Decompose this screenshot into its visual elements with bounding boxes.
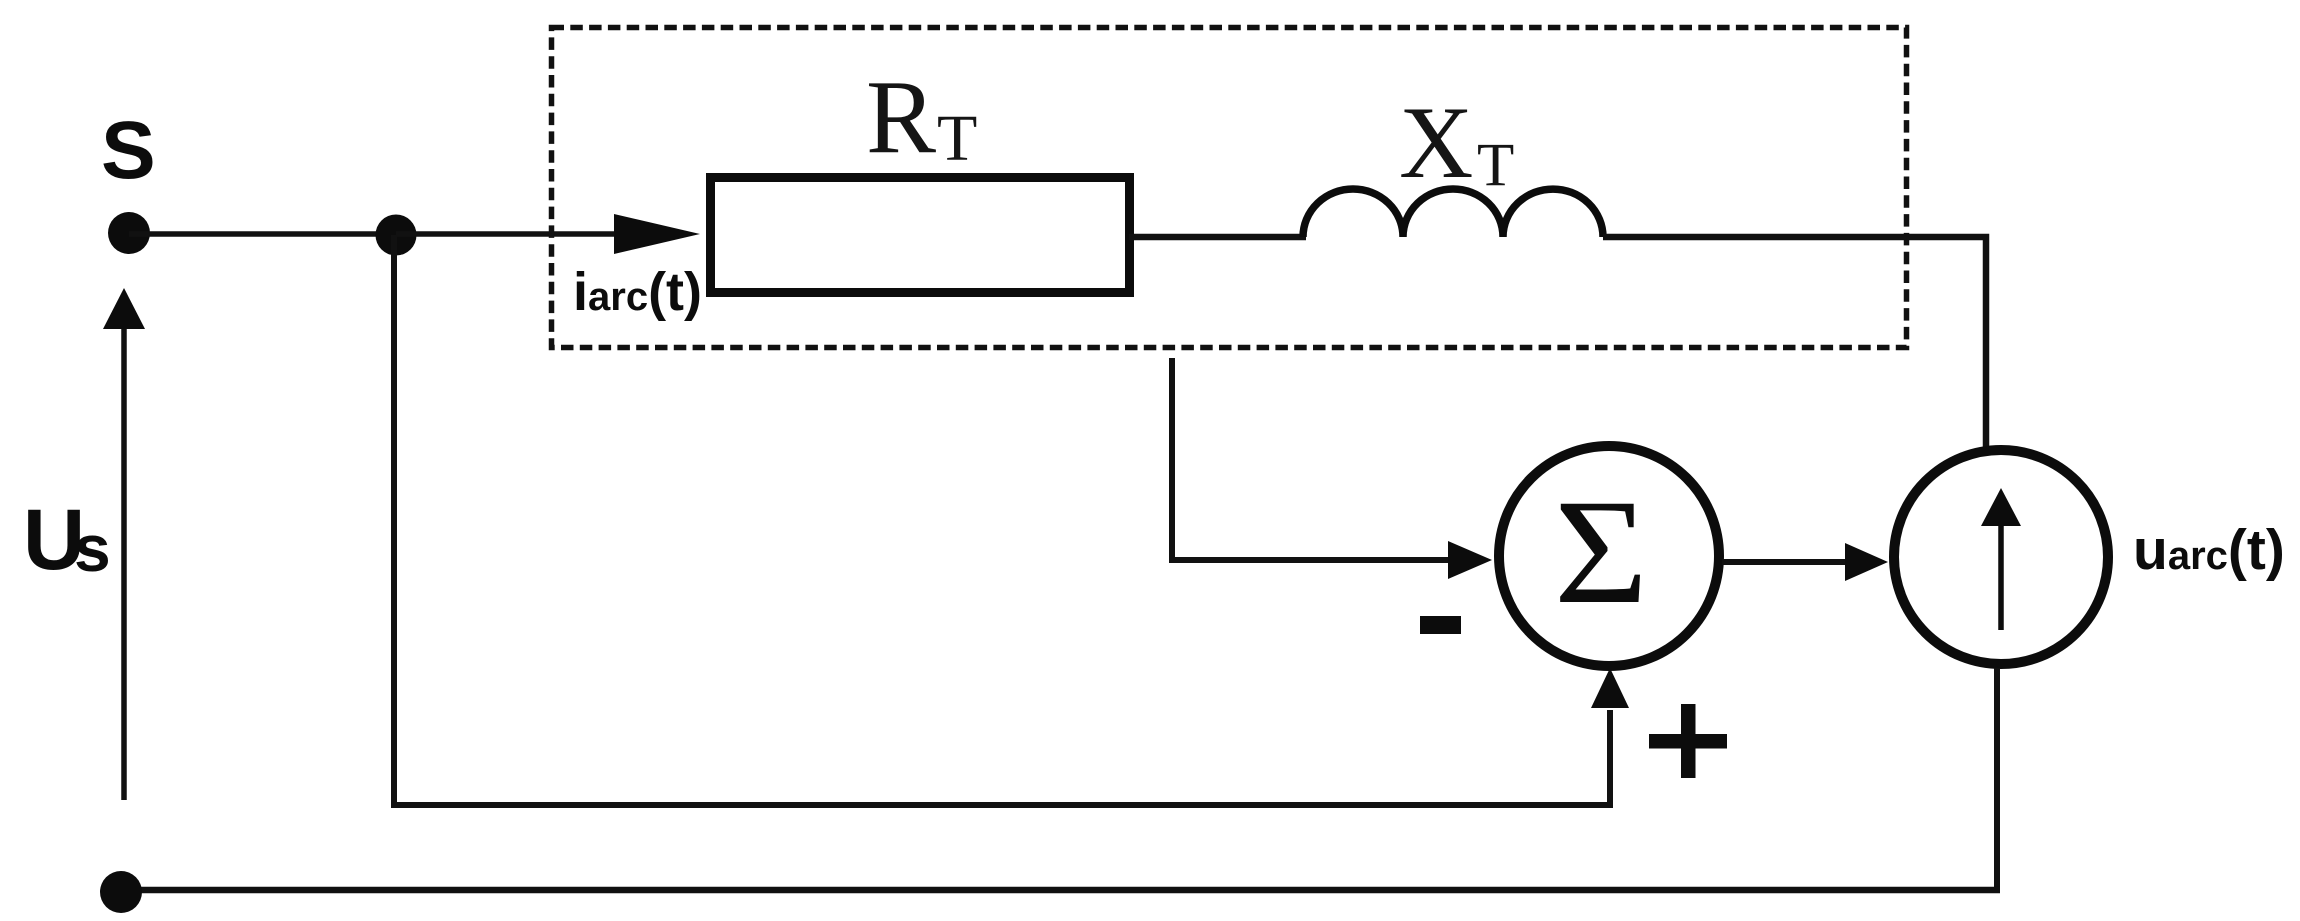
current source arrow shaft bbox=[1998, 523, 2004, 630]
arrow head into summing node bottom bbox=[1591, 668, 1629, 708]
svg-text:s: s bbox=[74, 511, 111, 585]
wire resistor to inductor bbox=[1129, 234, 1306, 241]
svg-text:Σ: Σ bbox=[1554, 468, 1648, 634]
wire S to junction bbox=[129, 231, 396, 237]
Us voltage arrow head bbox=[103, 288, 145, 329]
summing node circle bbox=[1499, 446, 1719, 666]
tap wire from transformer box down and right into summing node bbox=[1172, 358, 1452, 560]
arrow head into current source bbox=[1845, 543, 1888, 581]
arrow head i_arc into resistor bbox=[614, 214, 700, 254]
bottom terminal dot bbox=[100, 871, 142, 913]
svg-text:R: R bbox=[866, 58, 936, 175]
Us voltage arrow shaft bbox=[121, 327, 127, 800]
svg-text:S: S bbox=[101, 105, 156, 196]
current source arrow head bbox=[1981, 488, 2021, 526]
inductor X_T coils bbox=[1303, 189, 1603, 237]
feedback wire junction down across and up to summing node bbox=[394, 235, 1610, 805]
label plus sign bbox=[1649, 734, 1727, 749]
junction node dot bbox=[376, 215, 417, 256]
current source circle bbox=[1894, 450, 2108, 664]
wire below current source bbox=[1994, 668, 2000, 890]
resistor R_T body bbox=[711, 178, 1130, 293]
wire inductor to corner then down to current source bbox=[1603, 237, 1986, 450]
bottom return wire bbox=[121, 887, 2000, 894]
svg-text:T: T bbox=[937, 102, 977, 175]
arrow head into summing node left bbox=[1448, 541, 1492, 579]
label minus sign bbox=[1420, 616, 1461, 634]
svg-text:T: T bbox=[1477, 132, 1514, 199]
svg-text:X: X bbox=[1399, 86, 1473, 200]
dashed box transformer model bbox=[552, 28, 1907, 348]
wire junction to arrow bbox=[396, 231, 622, 237]
node S terminal dot bbox=[108, 212, 150, 254]
wire summing node to current source bbox=[1722, 559, 1850, 565]
